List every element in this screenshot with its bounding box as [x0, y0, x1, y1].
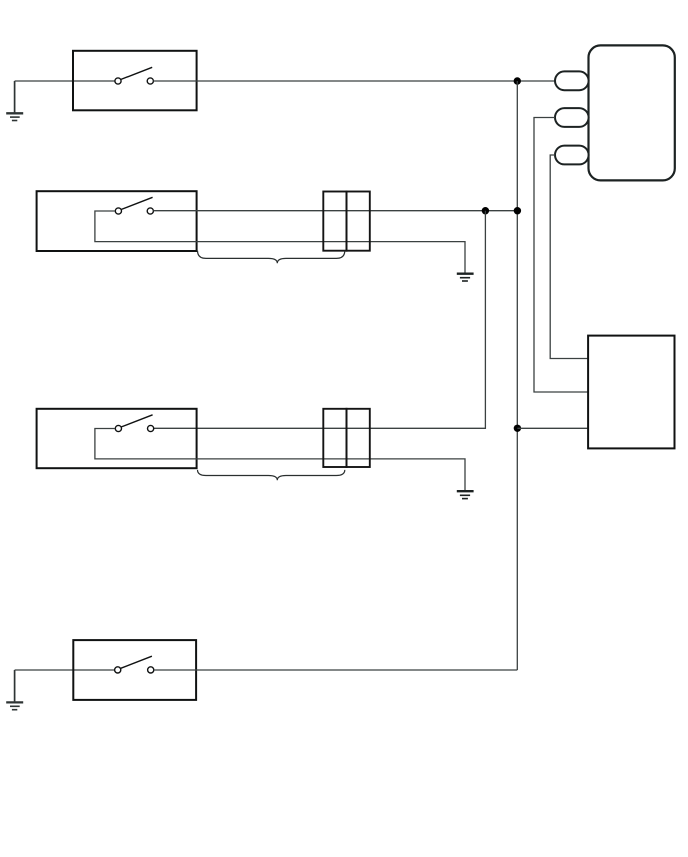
- inline connector J2 (left half): [323, 192, 346, 251]
- switch contacts SW1: [115, 67, 153, 84]
- connector U1 pin 1: [555, 71, 589, 90]
- junction node A (main bus top): [514, 77, 521, 84]
- switch box SW4: [73, 640, 196, 700]
- ground GND2: [457, 274, 474, 281]
- harness brace (under SW3 wiring): [198, 470, 345, 480]
- switch box SW2: [37, 191, 197, 251]
- wire: main vertical bus (node A down to SW4 row): [516, 81, 518, 670]
- wire: SW2 output to node B and node C: [153, 210, 517, 212]
- inline connector J3 (right half): [347, 409, 370, 467]
- wire: U1 pin 2 to module M1 (middle input): [534, 118, 588, 393]
- connector U1 pin 2: [555, 108, 589, 127]
- wire: U1 pin 3 to module M1 (top input): [550, 155, 588, 359]
- wire: node B down, then left to SW3 output: [154, 211, 485, 429]
- junction node C (on main bus): [514, 207, 521, 214]
- wire: node D to module M1 (bottom input): [517, 427, 588, 429]
- wire: SW4 output to main bus: [154, 669, 518, 671]
- wire: SW2 return to ground GND2: [95, 211, 465, 273]
- wire: GND4 to switch SW4: [15, 669, 115, 671]
- wire: SW3 return to ground GND3: [95, 429, 465, 491]
- ground GND1 (left of switch SW1): [6, 81, 23, 121]
- switch contacts SW4: [115, 656, 154, 673]
- junction node B: [482, 207, 489, 214]
- ground GND4 (left of switch SW4): [6, 670, 23, 710]
- wire: GND1 to switch SW1: [15, 80, 115, 82]
- switch box SW3: [37, 409, 197, 468]
- ground GND3: [457, 491, 474, 498]
- wire: SW1 to connector U1 pin 1: [153, 80, 555, 82]
- switch contacts SW2: [115, 197, 153, 214]
- connector U1 pin 3: [555, 146, 589, 165]
- inline connector J3 (left half): [323, 409, 346, 467]
- switch contacts SW3: [115, 415, 153, 432]
- harness brace (under SW2 wiring): [198, 251, 345, 264]
- switch box SW1: [73, 51, 197, 111]
- module M1 box: [588, 336, 674, 449]
- inline connector J2 (right half): [347, 192, 370, 251]
- junction node D (on main bus): [514, 425, 521, 432]
- connector U1 body: [589, 45, 675, 180]
